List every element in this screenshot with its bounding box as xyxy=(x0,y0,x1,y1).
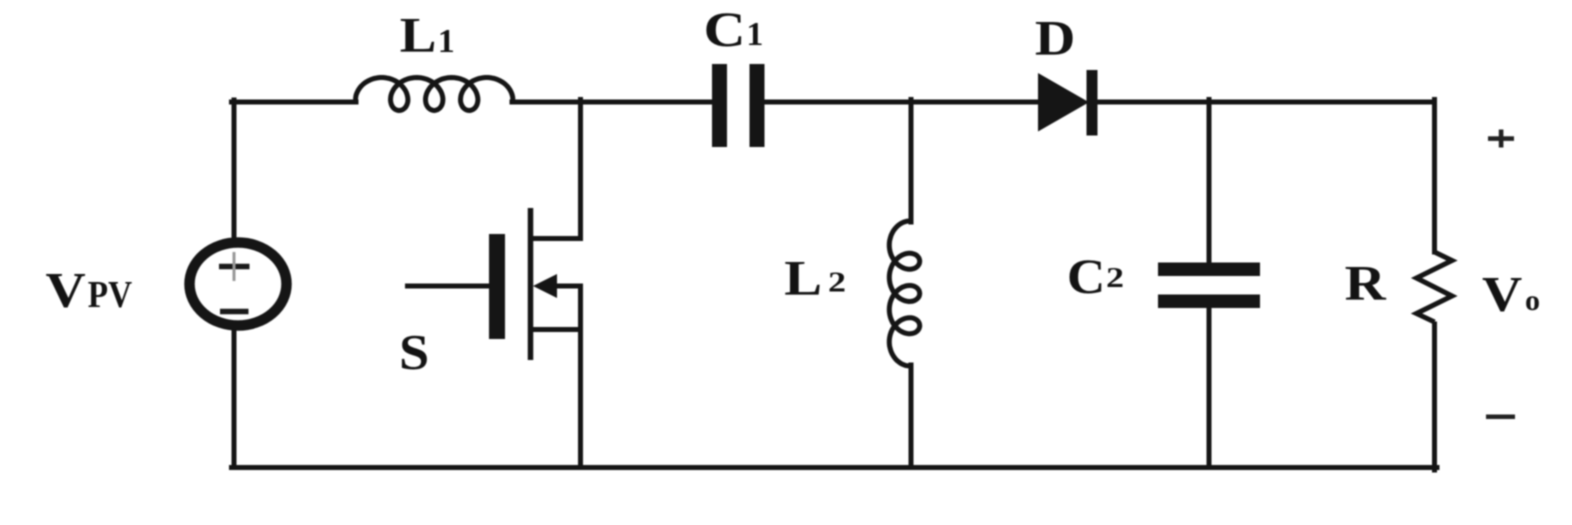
wire top rail diode cathode to top-right corner xyxy=(1095,100,1435,105)
label minus output xyxy=(1486,415,1515,420)
svg-text:1: 1 xyxy=(746,16,763,53)
svg-text:1: 1 xyxy=(438,23,455,60)
source plus sign xyxy=(219,252,250,281)
capacitor C2 top plate xyxy=(1158,263,1260,277)
wire C2 bottom stub xyxy=(1207,307,1212,468)
svg-text:C: C xyxy=(704,1,746,57)
gate bar xyxy=(489,234,505,339)
drain stub xyxy=(531,236,584,241)
transistor S (MOSFET switch) xyxy=(405,208,583,360)
wire right vertical above resistor R xyxy=(1432,100,1437,253)
wire right vertical below resistor R xyxy=(1432,324,1437,470)
svg-text:C: C xyxy=(1067,248,1106,304)
inductor L1 xyxy=(356,78,513,111)
wire bottom rail xyxy=(232,465,1438,470)
wire L2 bottom stub xyxy=(909,365,914,468)
label plus output xyxy=(1488,130,1514,148)
wire top rail L1 to C1 left plate xyxy=(512,100,713,105)
svg-text:L: L xyxy=(400,7,437,63)
wire left vertical top xyxy=(232,100,237,240)
wire C2 top stub xyxy=(1207,100,1212,264)
wire MOSFET source vertical xyxy=(578,286,583,468)
capacitor C1 right plate xyxy=(750,64,765,147)
source minus sign xyxy=(220,309,249,315)
svg-text:R: R xyxy=(1345,255,1387,311)
wire L2 top stub xyxy=(909,100,914,223)
wire MOSFET drain vertical xyxy=(578,100,583,239)
svg-text:2: 2 xyxy=(828,268,846,299)
source stub xyxy=(531,327,584,332)
wire left vertical bottom xyxy=(232,328,237,467)
gate wire xyxy=(405,284,489,289)
diode D cathode bar xyxy=(1087,70,1098,136)
svg-text:PV: PV xyxy=(88,274,133,316)
svg-text:L: L xyxy=(784,250,822,306)
capacitor C1 left plate xyxy=(712,64,727,147)
wire top rail source corner to L1 xyxy=(232,100,357,105)
capacitor C2 bottom plate xyxy=(1158,295,1260,309)
svg-text:D: D xyxy=(1035,10,1076,66)
resistor R zigzag xyxy=(1417,252,1453,322)
body arrow stub xyxy=(550,284,583,289)
svg-text:o: o xyxy=(1525,284,1540,317)
svg-text:V: V xyxy=(46,262,86,318)
svg-text:2: 2 xyxy=(1106,263,1124,294)
source VPV circle xyxy=(190,243,287,326)
svg-text:S: S xyxy=(399,324,429,380)
inductor L2 xyxy=(889,221,919,366)
svg-text:V: V xyxy=(1482,266,1522,322)
diode D triangle xyxy=(1038,73,1089,132)
wire top rail C1 right plate to diode xyxy=(763,100,1040,105)
channel line xyxy=(528,208,534,360)
